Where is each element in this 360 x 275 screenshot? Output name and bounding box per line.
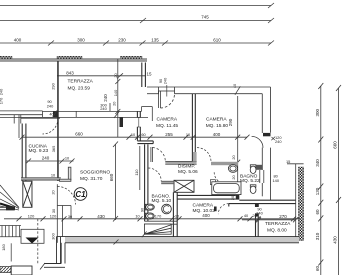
camera1 door leaf and arc xyxy=(159,91,175,108)
shaft X box xyxy=(174,180,194,192)
svg-text:400: 400 xyxy=(213,132,221,137)
window camera1 left glazing xyxy=(137,118,141,128)
svg-text:170: 170 xyxy=(155,213,162,218)
svg-text:365: 365 xyxy=(51,146,56,153)
svg-text:TERRAZZA: TERRAZZA xyxy=(68,79,94,85)
svg-text:300: 300 xyxy=(77,38,85,43)
svg-text:610: 610 xyxy=(213,38,221,43)
svg-text:290: 290 xyxy=(51,82,56,89)
svg-text:MQ. 5.10: MQ. 5.10 xyxy=(152,198,172,204)
dimension line top B 745 xyxy=(0,18,274,23)
svg-text:255: 255 xyxy=(165,132,173,137)
wall terrace top xyxy=(0,59,147,61)
svg-text:400: 400 xyxy=(202,213,210,218)
wall between cameras xyxy=(192,94,195,161)
door leaf small block xyxy=(214,207,217,212)
door camera3 dashed arc xyxy=(218,204,229,215)
svg-text:660: 660 xyxy=(109,173,114,181)
svg-text:135: 135 xyxy=(151,38,159,43)
svg-text:MQ. 5.22: MQ. 5.22 xyxy=(240,178,260,184)
svg-text:MQ. 15.80: MQ. 15.80 xyxy=(206,123,229,129)
toilet bagnoL xyxy=(145,204,154,210)
svg-text:CAMERA: CAMERA xyxy=(157,117,178,123)
dimension line bottom I xyxy=(4,216,300,221)
svg-text:MQ. 31.70: MQ. 31.70 xyxy=(80,176,103,182)
svg-text:230: 230 xyxy=(118,38,126,43)
wall soggiorno left lower thin xyxy=(57,184,71,243)
dimension line top A xyxy=(0,3,274,8)
wall vertical cucina-soggiorno x57 xyxy=(57,61,59,181)
stair landing rect xyxy=(21,229,44,243)
dim vertical 660 soggiorno xyxy=(113,142,118,222)
dim vertical 110 xyxy=(139,146,141,190)
svg-text:60: 60 xyxy=(315,266,320,272)
door jamb piers terrazza2 xyxy=(255,204,259,207)
svg-text:240: 240 xyxy=(100,106,107,111)
wall bagnoL top gray band xyxy=(161,181,173,184)
svg-text:140: 140 xyxy=(113,89,118,96)
stair side line xyxy=(10,243,12,261)
svg-text:MQ. 5.06: MQ. 5.06 xyxy=(178,169,198,175)
cucina door dashed arc xyxy=(43,119,59,135)
unit label C1 xyxy=(74,188,87,201)
svg-text:120: 120 xyxy=(28,213,35,218)
window bagnoR glazing xyxy=(260,170,264,183)
dim line 660 y137 xyxy=(20,135,250,140)
dim line 240 cucina xyxy=(26,159,75,164)
wall step lower xyxy=(229,200,296,206)
stair treads lower xyxy=(0,226,21,237)
door bagnoR leaf blob xyxy=(217,182,220,185)
tick cross door camera2 xyxy=(271,137,275,140)
wall cucina left xyxy=(22,124,26,182)
dim extension left vertical xyxy=(18,115,20,138)
door camera2 leaf xyxy=(263,133,271,136)
svg-text:15: 15 xyxy=(146,72,152,77)
wall bagnoL bottom xyxy=(144,221,177,224)
wall pier xyxy=(236,195,240,200)
stair winders xyxy=(0,185,19,210)
wall bottom left corner vertical xyxy=(44,237,65,268)
door soggiorno-disimp leaf xyxy=(151,147,153,162)
svg-text:290: 290 xyxy=(228,118,233,126)
svg-text:CAMERA: CAMERA xyxy=(206,117,227,123)
wall bagnoL-disimp x173 xyxy=(173,192,177,236)
svg-text:170: 170 xyxy=(0,97,4,104)
svg-text:240: 240 xyxy=(103,94,108,102)
svg-text:110: 110 xyxy=(134,169,139,176)
svg-text:MQ. 11.45: MQ. 11.45 xyxy=(156,123,178,129)
svg-text:300: 300 xyxy=(51,232,56,239)
svg-text:240: 240 xyxy=(0,88,4,95)
bidet bagnoL xyxy=(145,213,154,219)
wall terrazza2 left double xyxy=(256,204,259,237)
svg-text:SOGGIORNO: SOGGIORNO xyxy=(80,170,110,176)
hatch block bottom left xyxy=(0,267,11,273)
svg-text:60: 60 xyxy=(315,209,320,215)
stair direction triangle xyxy=(26,238,39,244)
svg-text:300: 300 xyxy=(315,108,320,116)
door bagnoL dashed arc xyxy=(148,168,161,181)
wall stub below parapet xyxy=(120,118,124,128)
wall top right section outer xyxy=(147,87,271,94)
svg-text:340: 340 xyxy=(315,159,320,167)
dim vertical camera1 left xyxy=(115,59,120,137)
svg-text:MQ. 8.00: MQ. 8.00 xyxy=(267,227,287,233)
svg-text:240: 240 xyxy=(47,103,54,108)
wall chunk terrace divider foot xyxy=(53,111,59,117)
toilet bagnoR xyxy=(228,165,237,173)
stair dashed line xyxy=(37,219,39,264)
wc bagnoR xyxy=(250,185,256,194)
terrace hatch top xyxy=(0,56,142,58)
svg-text:400: 400 xyxy=(14,38,22,43)
svg-text:140: 140 xyxy=(273,178,280,183)
stair X box xyxy=(23,181,32,207)
svg-text:660: 660 xyxy=(75,131,83,136)
slash marks bottom wall xyxy=(40,240,119,270)
wall camera3 top xyxy=(177,195,236,199)
dimension line right E xyxy=(336,85,341,275)
svg-text:310: 310 xyxy=(315,232,320,240)
svg-text:240: 240 xyxy=(275,139,282,144)
svg-text:130: 130 xyxy=(315,187,320,195)
svg-text:843: 843 xyxy=(66,70,74,75)
svg-text:CAMERA: CAMERA xyxy=(193,202,214,208)
svg-text:240: 240 xyxy=(163,77,168,84)
door disimp-camera2 dashed arc xyxy=(197,148,211,162)
dim vertical 290 camera2 xyxy=(235,96,240,182)
slash tick top wall x237 xyxy=(235,86,240,95)
wall right outer xyxy=(262,87,270,200)
svg-text:430: 430 xyxy=(97,214,105,219)
svg-text:240: 240 xyxy=(42,155,50,160)
dimension line right D xyxy=(318,83,323,275)
window block soggiorno bottom xyxy=(144,224,171,234)
dimension line terrazza2 270 xyxy=(242,217,298,222)
svg-text:MQ. 23.59: MQ. 23.59 xyxy=(68,86,91,92)
svg-text:430: 430 xyxy=(333,236,338,244)
svg-text:180: 180 xyxy=(1,243,6,250)
svg-text:15: 15 xyxy=(286,159,290,164)
door disimp-bagnoR dashed arc xyxy=(214,172,225,183)
dimension line top C xyxy=(0,41,274,46)
wall cucina bottom xyxy=(21,178,61,180)
block bottom left xyxy=(11,266,32,275)
wall bottom outer xyxy=(57,237,300,243)
svg-text:MQ. 9.23: MQ. 9.23 xyxy=(29,148,49,154)
svg-text:270: 270 xyxy=(279,214,287,219)
cassonetto gray xyxy=(256,165,262,170)
slash ticks parapet xyxy=(53,111,120,119)
bathtub bagnoR xyxy=(212,182,241,195)
svg-text:240: 240 xyxy=(256,211,263,216)
stair wall small xyxy=(0,207,14,210)
bidet bagnoR xyxy=(250,165,256,174)
entry door dashed arc xyxy=(58,187,76,205)
door soggiorno-disimp dashed arc xyxy=(153,148,166,162)
wall terrace right xyxy=(142,63,146,88)
wall terrace2 right hatched xyxy=(287,164,304,243)
svg-text:C1: C1 xyxy=(75,190,86,199)
svg-text:745: 745 xyxy=(201,15,209,20)
pilaster L soggiorno xyxy=(60,167,71,181)
svg-text:TERRAZZA: TERRAZZA xyxy=(265,221,291,227)
svg-text:660: 660 xyxy=(333,141,338,149)
svg-text:DISIMP.: DISIMP. xyxy=(178,164,195,170)
wall apartment top (terrace parapet) xyxy=(0,103,152,124)
wall mid horizontal xyxy=(137,141,153,144)
wall bagno right top gray xyxy=(211,162,238,165)
door bagnoR jamb xyxy=(210,180,215,185)
basin bagnoL xyxy=(162,204,172,214)
dim 843 line xyxy=(57,73,145,78)
wall disimp north gray band xyxy=(165,152,196,164)
wall camera1 left xyxy=(137,111,140,140)
door camera2 arc xyxy=(252,136,263,147)
wall bagnoL left x144 xyxy=(145,144,148,221)
